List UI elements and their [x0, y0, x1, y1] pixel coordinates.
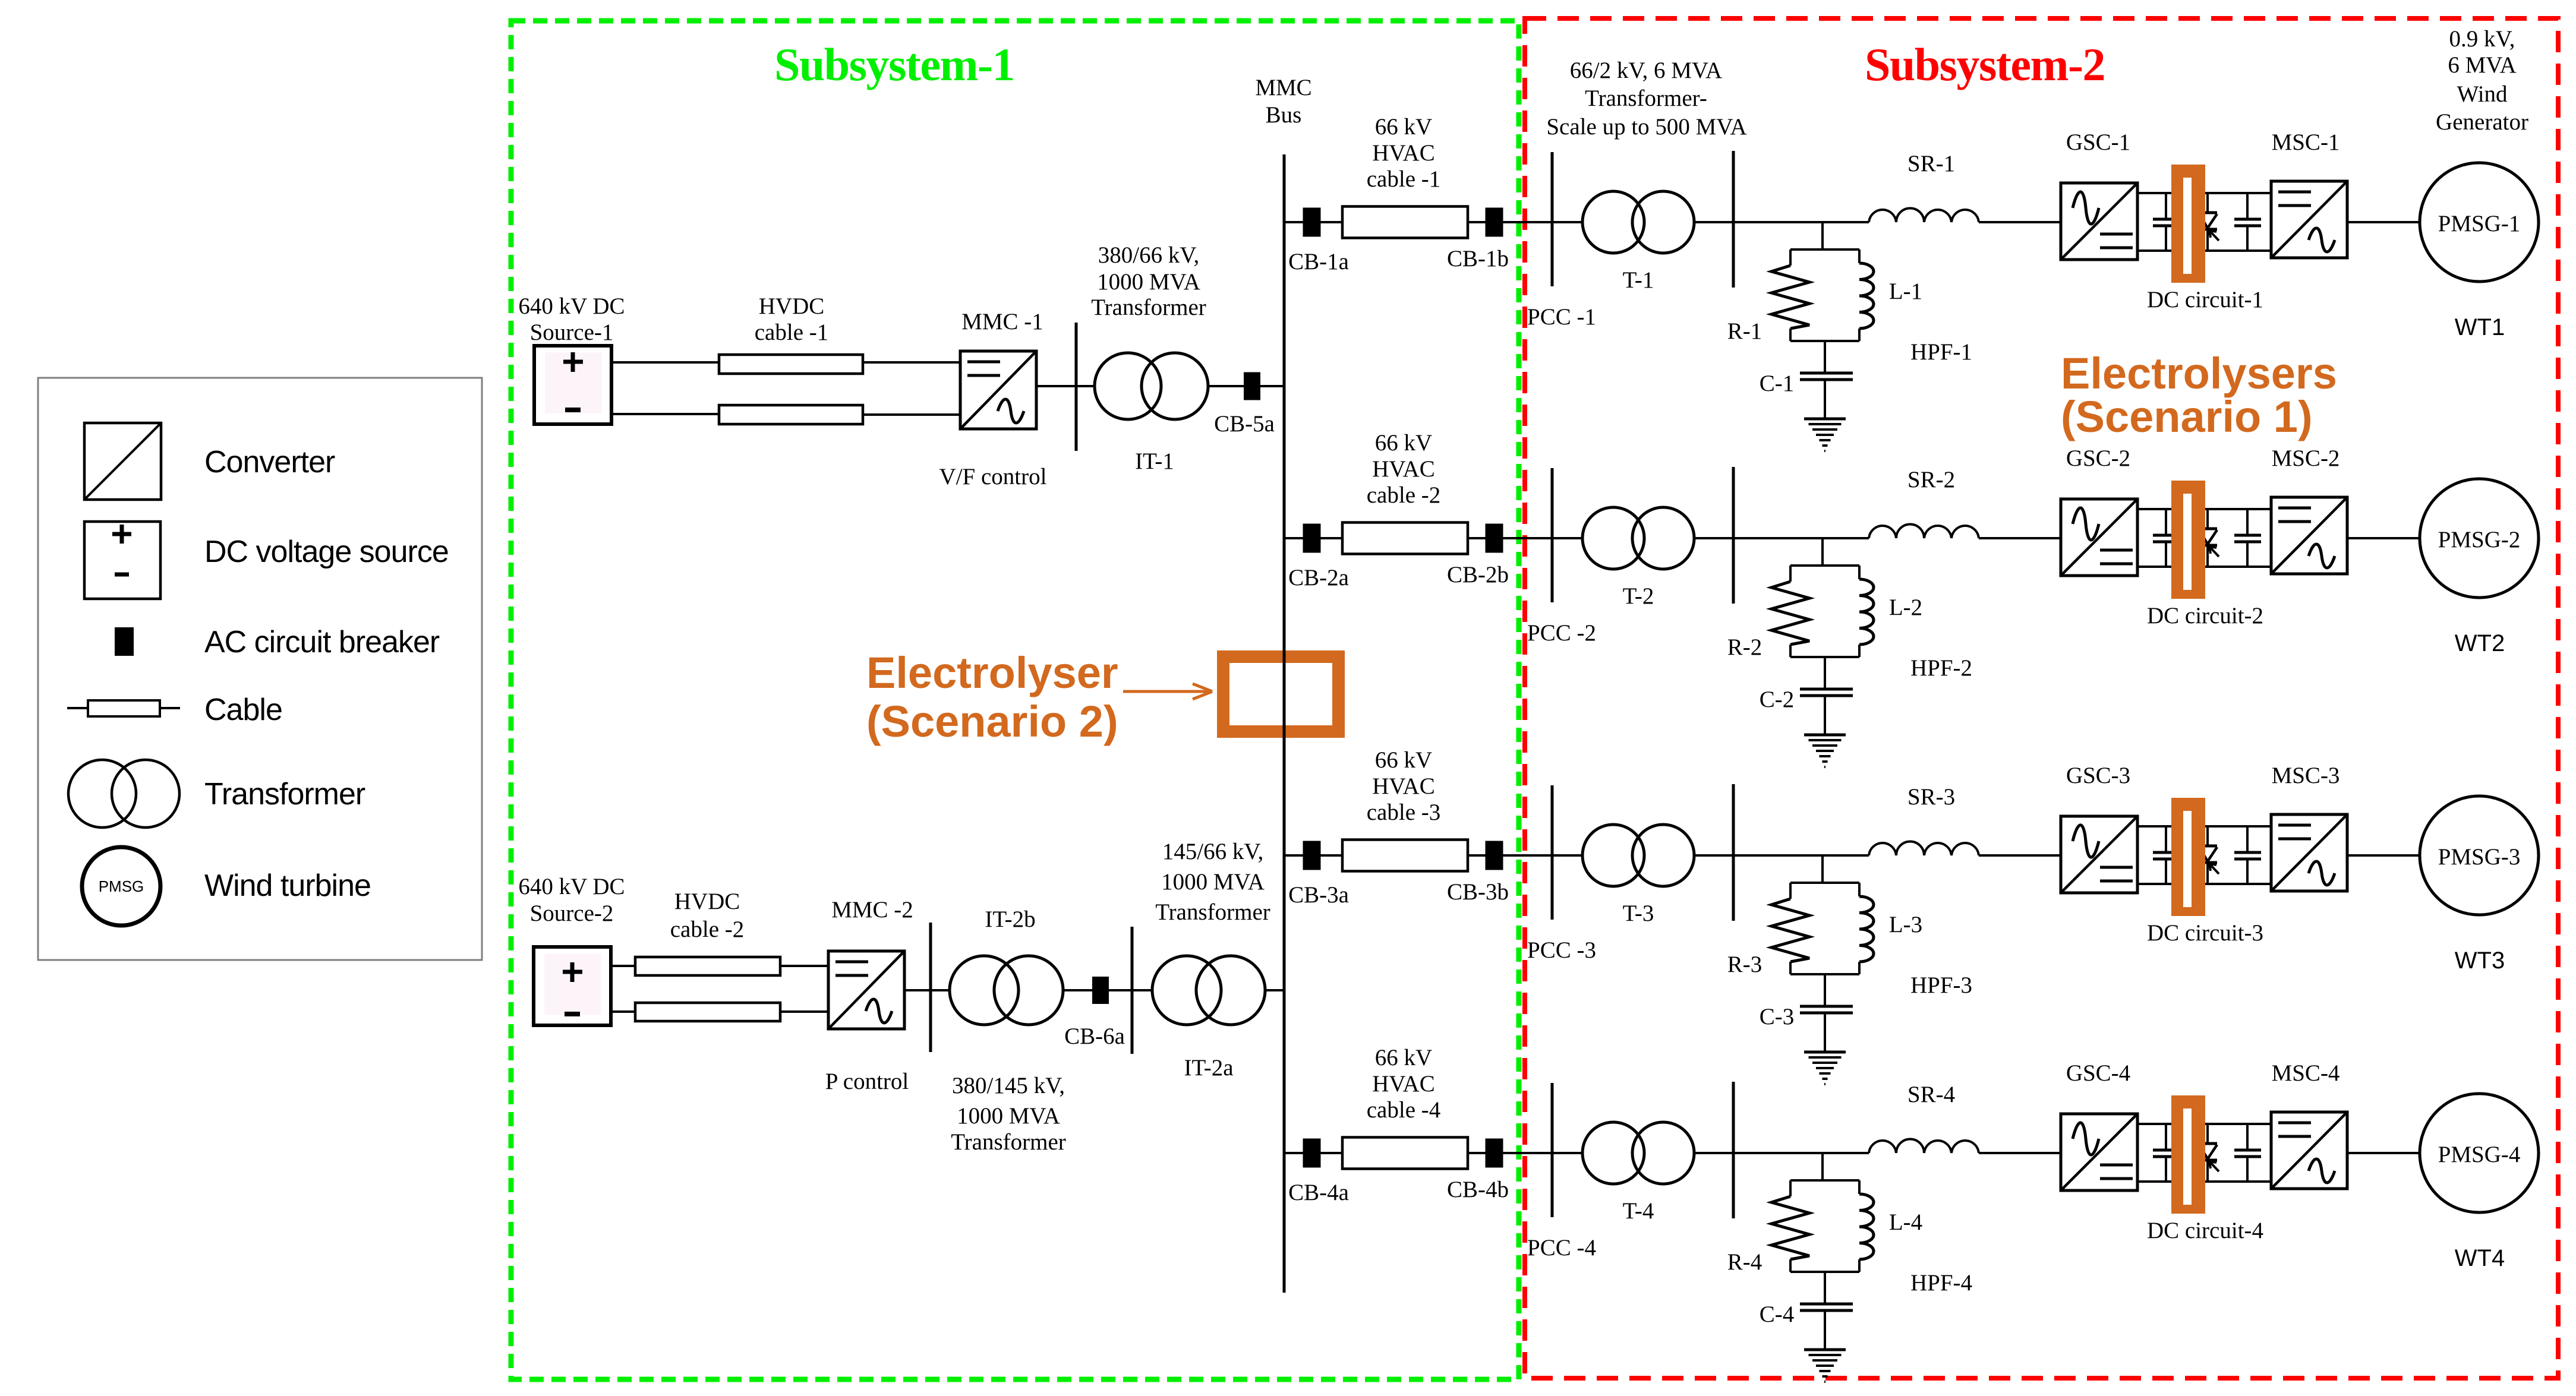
svg-text:GSC-4: GSC-4 [2066, 1060, 2130, 1086]
label MMC -2 [831, 897, 913, 923]
node PCC-1 bus bar [1551, 152, 1554, 286]
wire cable to MMC-1 positive [863, 361, 960, 364]
thyristor row 2 [2199, 509, 2219, 567]
MMC Bus label [1255, 75, 1311, 128]
wire MSC-1 to PMSG-1 [2347, 221, 2420, 223]
resistor R-2 [1771, 582, 1809, 645]
electrolyser EL1 (Scenario 1) in DC circuit-1 [2171, 165, 2205, 283]
svg-text:CB-2a: CB-2a [1288, 565, 1349, 590]
wire CB-2a to cable-2 [1320, 537, 1342, 539]
svg-text:66 kV: 66 kV [1375, 430, 1432, 456]
svg-text:HPF-4: HPF-4 [1910, 1270, 1972, 1296]
wire CB-4b to PCC-4 [1503, 1152, 1582, 1154]
label 380/66 kV 1000 MVA Transformer [1091, 242, 1206, 320]
wire junction down to HPF-4 [1821, 1153, 1824, 1182]
svg-text:145/66 kV,: 145/66 kV, [1162, 839, 1263, 864]
high pass filter HPF-4 parallel block frame [1790, 1180, 1859, 1272]
label DC circuit-3 [2147, 920, 2263, 946]
svg-text:640 kV DC: 640 kV DC [518, 874, 625, 899]
label 380/145 kV 1000 MVA Transformer [951, 1073, 1066, 1155]
svg-text:380/66 kV,: 380/66 kV, [1098, 242, 1199, 268]
svg-text:HVDC: HVDC [759, 293, 825, 319]
svg-text:66 kV: 66 kV [1375, 1045, 1432, 1070]
wire DC link top rail row 2 [2137, 508, 2271, 510]
svg-text:PCC -1: PCC -1 [1527, 304, 1596, 330]
svg-text:R-3: R-3 [1727, 952, 1762, 977]
inductor L-1 [1859, 263, 1874, 329]
node PCC-3 bus bar [1551, 785, 1554, 920]
svg-text:640 kV DC: 640 kV DC [518, 293, 625, 319]
converter MSC-2 machine side [2271, 497, 2347, 574]
svg-text:SR-1: SR-1 [1907, 151, 1955, 176]
svg-text:66/2 kV, 6 MVA: 66/2 kV, 6 MVA [1570, 58, 1722, 83]
circuit breaker CB-1b [1486, 208, 1503, 237]
svg-text:SR-3: SR-3 [1907, 784, 1955, 810]
label 66 kV HVAC cable -1 [1367, 114, 1441, 192]
svg-text:R-4: R-4 [1727, 1249, 1762, 1275]
svg-text:Transformer: Transformer [1155, 899, 1270, 925]
svg-text:V/F control: V/F control [939, 464, 1047, 489]
label Electrolysers (Scenario 1) [2061, 349, 2337, 441]
label L-3 [1889, 912, 1922, 937]
wire T-3 to SR-3 [1694, 854, 1869, 857]
wire CB-2b to PCC-2 [1503, 537, 1582, 539]
svg-text:(Scenario 1): (Scenario 1) [2061, 392, 2313, 441]
svg-text:cable -4: cable -4 [1367, 1097, 1441, 1123]
node bus tick right of T-4 [1732, 1082, 1735, 1218]
wire junction down to HPF-1 [1821, 222, 1824, 251]
svg-text:Transformer: Transformer [951, 1129, 1066, 1155]
label L-4 [1889, 1209, 1922, 1235]
circuit breaker CB-3a [1303, 841, 1321, 870]
wire DC link bottom rail row 1 [2137, 249, 2271, 252]
wire DC link bottom rail row 4 [2137, 1180, 2271, 1183]
svg-text:MSC-4: MSC-4 [2272, 1060, 2340, 1086]
wire DC link top rail row 1 [2137, 192, 2271, 194]
converter GSC-2 grid side [2061, 499, 2137, 576]
wire C-2 to ground [1824, 697, 1826, 735]
svg-text:CB-3a: CB-3a [1288, 882, 1349, 908]
svg-text:C-4: C-4 [1760, 1302, 1795, 1327]
wire bus to CB-4a [1284, 1152, 1303, 1154]
label C-4 [1760, 1302, 1795, 1327]
arrow to electrolyser [1123, 684, 1212, 699]
DC voltage source V1 (640 kV DC Source-1) [534, 346, 611, 424]
label PCC -1 [1527, 304, 1596, 330]
electrolyser EL5 (Scenario 2) on MMC bus [1217, 650, 1345, 738]
wire SR-2 to GSC-2 [1979, 537, 2061, 539]
label CB-5a [1214, 411, 1275, 437]
thyristor row 1 [2199, 193, 2219, 251]
label HVDC cable -2 [670, 889, 745, 942]
svg-text:CB-2b: CB-2b [1447, 562, 1509, 588]
ground [1804, 1052, 1846, 1084]
label MSC-3 [2272, 763, 2340, 788]
wire C-3 to ground [1824, 1014, 1826, 1052]
svg-text:C-2: C-2 [1760, 687, 1795, 712]
svg-text:1000 MVA: 1000 MVA [1161, 869, 1265, 895]
svg-text:P control: P control [825, 1069, 909, 1094]
MMC bus vertical line [1283, 154, 1286, 1293]
circuit breaker CB-4b [1486, 1139, 1503, 1168]
label IT-2b [985, 907, 1035, 932]
circuit breaker CB-2b [1486, 524, 1503, 553]
svg-text:WT4: WT4 [2455, 1245, 2505, 1271]
wire cable-3 to CB-3b [1468, 854, 1486, 857]
circuit breaker CB-1a [1303, 208, 1321, 237]
node PCC-4 bus bar [1551, 1083, 1554, 1217]
wire source-2 positive to cable [611, 965, 635, 967]
capacitor DC link left row 3 [2153, 826, 2180, 884]
label SR-3 [1907, 784, 1955, 810]
label GSC-3 [2066, 763, 2130, 788]
wire IT-1 to CB-5a [1208, 385, 1244, 387]
svg-text:HPF-1: HPF-1 [1910, 339, 1972, 365]
svg-text:66 kV: 66 kV [1375, 114, 1432, 140]
wire SR-3 to GSC-3 [1979, 854, 2061, 857]
svg-text:L-1: L-1 [1889, 279, 1922, 304]
circuit breaker CB-5a [1244, 372, 1260, 400]
cable 66 kV HVAC cable-2 [1342, 523, 1468, 554]
generator PMSG-2 wind turbine [2420, 479, 2539, 598]
cable 66 kV HVAC cable-4 [1342, 1138, 1468, 1169]
wire CB-6a to IT-2a [1109, 989, 1152, 991]
svg-text:Wind: Wind [2457, 81, 2508, 107]
label HPF-3 [1910, 972, 1972, 998]
capacitor DC link left row 2 [2153, 509, 2180, 567]
svg-text:HVAC: HVAC [1372, 773, 1434, 799]
svg-text:HPF-3: HPF-3 [1910, 972, 1972, 998]
label HPF-2 [1910, 655, 1972, 681]
label IT-1 [1135, 449, 1174, 474]
label C-1 [1760, 371, 1795, 396]
legend transformer symbol [68, 760, 365, 828]
label MSC-4 [2272, 1060, 2340, 1086]
label R-4 [1727, 1249, 1762, 1275]
wire bus to CB-3a [1284, 854, 1303, 857]
svg-text:MMC: MMC [1255, 75, 1311, 100]
svg-text:CB-4a: CB-4a [1288, 1180, 1349, 1205]
electrolyser EL3 (Scenario 1) in DC circuit-3 [2171, 798, 2205, 916]
label CB-2b [1447, 562, 1509, 588]
label PCC -4 [1527, 1235, 1596, 1261]
wire T-2 to SR-2 [1694, 537, 1869, 539]
label CB-3a [1288, 882, 1349, 908]
svg-text:C-3: C-3 [1760, 1004, 1795, 1029]
svg-text:WT3: WT3 [2455, 947, 2505, 974]
label GSC-2 [2066, 446, 2130, 471]
label 640 kV DC Source-1 [518, 293, 625, 345]
wire cable to MMC-2 positive [780, 965, 828, 967]
svg-text:PMSG-2: PMSG-2 [2438, 527, 2521, 552]
transformer IT-1 [1095, 353, 1208, 419]
wire HPF-3 block to C-3 [1824, 974, 1826, 1005]
capacitor DC link right row 3 [2234, 826, 2261, 884]
inductor L-3 [1859, 896, 1874, 962]
svg-text:MSC-3: MSC-3 [2272, 763, 2340, 788]
svg-text:C-1: C-1 [1760, 371, 1795, 396]
capacitor C-4 [1800, 1304, 1853, 1310]
wire IT-2a to MMC bus [1265, 989, 1284, 991]
svg-text:MMC -1: MMC -1 [961, 309, 1043, 334]
legend AC circuit breaker symbol [115, 625, 440, 659]
electrolyser EL4 (Scenario 1) in DC circuit-4 [2171, 1095, 2205, 1214]
svg-text:HVAC: HVAC [1372, 1071, 1434, 1097]
svg-text:PMSG-4: PMSG-4 [2438, 1142, 2521, 1167]
svg-text:CB-5a: CB-5a [1214, 411, 1275, 437]
svg-text:Source-2: Source-2 [530, 901, 614, 926]
node bus tick right of T-2 [1732, 467, 1735, 604]
generator PMSG-4 wind turbine [2420, 1094, 2539, 1212]
label HVDC cable -1 [755, 293, 829, 345]
wire MSC-4 to PMSG-4 [2347, 1152, 2420, 1154]
label WT1 [2455, 314, 2505, 340]
label CB-1b [1447, 246, 1509, 271]
high pass filter HPF-3 parallel block frame [1790, 883, 1859, 974]
node bus tick left of IT-2b [929, 923, 932, 1052]
svg-text:66 kV: 66 kV [1375, 747, 1432, 773]
ground [1804, 735, 1846, 767]
circuit breaker CB-4a [1303, 1139, 1321, 1168]
wire CB-4a to cable-4 [1320, 1152, 1342, 1154]
transformer T-3 [1582, 825, 1694, 886]
transformer IT-2b [950, 956, 1063, 1025]
wire cable-2 to CB-2b [1468, 537, 1486, 539]
label SR-2 [1907, 467, 1955, 492]
svg-text:Electrolyser: Electrolyser [866, 648, 1118, 697]
svg-text:Wind turbine: Wind turbine [204, 868, 371, 903]
svg-text:DC circuit-3: DC circuit-3 [2147, 920, 2263, 946]
wire CB-3b to PCC-3 [1503, 854, 1582, 857]
capacitor DC link left row 4 [2153, 1124, 2180, 1182]
label C-2 [1760, 687, 1795, 712]
svg-text:T-4: T-4 [1623, 1198, 1654, 1224]
inductor SR-3 series reactor [1869, 841, 1979, 855]
wire HPF-1 block to C-1 [1824, 341, 1826, 372]
resistor R-3 [1771, 899, 1809, 962]
svg-text:Cable: Cable [204, 693, 282, 727]
legend cable symbol [67, 693, 282, 727]
wire MSC-2 to PMSG-2 [2347, 537, 2420, 539]
legend converter symbol [84, 423, 335, 500]
node bus tick right of CB-6a [1131, 927, 1134, 1054]
label Electrolyser (Scenario 2) [866, 648, 1118, 746]
wire junction down to HPF-3 [1821, 855, 1824, 884]
label CB-2a [1288, 565, 1349, 590]
svg-text:L-2: L-2 [1889, 595, 1922, 620]
label 66 kV HVAC cable -4 [1367, 1045, 1441, 1123]
ground [1804, 1350, 1846, 1382]
wire T-4 to SR-4 [1694, 1152, 1869, 1154]
wire junction down to HPF-2 [1821, 538, 1824, 567]
legend DC voltage source symbol [84, 522, 449, 599]
wire MMC-2 to IT-2b [904, 989, 950, 991]
wire bus to CB-1a [1284, 221, 1303, 223]
wire cable-4 to CB-4b [1468, 1152, 1486, 1154]
svg-text:T-1: T-1 [1623, 267, 1654, 293]
label MSC-2 [2272, 446, 2340, 471]
label 66/2 kV 6 MVA Transformer Scale up to 500 MVA [1546, 58, 1746, 140]
wire CB-1a to cable-1 [1320, 221, 1342, 223]
label GSC-4 [2066, 1060, 2130, 1086]
svg-text:cable -3: cable -3 [1367, 800, 1441, 825]
thyristor row 3 [2199, 826, 2219, 884]
label T-3 [1623, 901, 1654, 926]
label SR-4 [1907, 1082, 1955, 1107]
circuit breaker CB-6a [1092, 977, 1109, 1004]
label DC circuit-2 [2147, 603, 2263, 628]
label CB-4a [1288, 1180, 1349, 1205]
svg-text:CB-6a: CB-6a [1064, 1024, 1125, 1049]
wire DC link top rail row 4 [2137, 1123, 2271, 1125]
label 66 kV HVAC cable -2 [1367, 430, 1441, 508]
wire MSC-3 to PMSG-3 [2347, 854, 2420, 857]
label MSC-1 [2272, 130, 2340, 155]
wire DC link bottom rail row 3 [2137, 883, 2271, 885]
cable 66 kV HVAC cable-3 [1342, 840, 1468, 871]
svg-text:CB-4b: CB-4b [1447, 1177, 1509, 1202]
label 66 kV HVAC cable -3 [1367, 747, 1441, 825]
label DC circuit-1 [2147, 287, 2263, 312]
svg-text:T-2: T-2 [1623, 583, 1654, 609]
svg-text:PCC -3: PCC -3 [1527, 937, 1596, 963]
svg-text:DC voltage source: DC voltage source [204, 535, 449, 569]
label L-2 [1889, 595, 1922, 620]
wire DC link bottom rail row 2 [2137, 566, 2271, 568]
label MMC -1 [961, 309, 1043, 334]
label T-1 [1623, 267, 1654, 293]
converter MSC-1 machine side [2271, 181, 2347, 258]
svg-text:6 MVA: 6 MVA [2448, 52, 2516, 78]
svg-text:PMSG-1: PMSG-1 [2438, 211, 2521, 236]
svg-text:Source-1: Source-1 [530, 320, 614, 345]
svg-text:DC circuit-2: DC circuit-2 [2147, 603, 2263, 628]
resistor R-1 [1771, 266, 1809, 329]
svg-text:SR-2: SR-2 [1907, 467, 1955, 492]
legend wind turbine symbol [82, 847, 371, 926]
wire DC link top rail row 3 [2137, 825, 2271, 828]
label T-2 [1623, 583, 1654, 609]
label WT3 [2455, 947, 2505, 974]
svg-text:T-3: T-3 [1623, 901, 1654, 926]
wire CB-5a to MMC bus [1260, 385, 1284, 387]
label IT-2a [1184, 1055, 1233, 1081]
svg-text:HVAC: HVAC [1372, 140, 1434, 166]
svg-text:L-3: L-3 [1889, 912, 1922, 937]
label WT4 [2455, 1245, 2505, 1271]
svg-text:MSC-1: MSC-1 [2272, 130, 2340, 155]
node bus tick right of T-3 [1732, 784, 1735, 921]
converter MMC-1 [960, 351, 1036, 429]
node bus tick left of IT-1 [1075, 323, 1078, 451]
converter MSC-3 machine side [2271, 814, 2347, 891]
svg-text:GSC-2: GSC-2 [2066, 446, 2130, 471]
label T-4 [1623, 1198, 1654, 1224]
svg-text:Transformer-: Transformer- [1585, 86, 1707, 111]
wire SR-4 to GSC-4 [1979, 1152, 2061, 1154]
svg-text:cable -1: cable -1 [1367, 166, 1441, 192]
svg-text:WT2: WT2 [2455, 630, 2505, 656]
svg-text:IT-2b: IT-2b [985, 907, 1035, 932]
converter GSC-1 grid side [2061, 183, 2137, 260]
high pass filter HPF-2 parallel block frame [1790, 566, 1859, 657]
wire source-2 negative to cable [611, 1010, 635, 1013]
svg-text:PCC -4: PCC -4 [1527, 1235, 1596, 1261]
capacitor DC link right row 4 [2234, 1124, 2261, 1182]
svg-text:CB-1a: CB-1a [1288, 249, 1349, 274]
capacitor DC link left row 1 [2153, 193, 2180, 251]
inductor SR-2 series reactor [1869, 525, 1979, 539]
svg-text:Transformer: Transformer [204, 777, 365, 811]
svg-text:PMSG: PMSG [99, 877, 144, 895]
electrolyser EL2 (Scenario 1) in DC circuit-2 [2171, 481, 2205, 599]
capacitor C-2 [1800, 689, 1853, 696]
converter GSC-4 grid side [2061, 1114, 2137, 1190]
transformer IT-2a [1152, 956, 1265, 1025]
svg-text:SR-4: SR-4 [1907, 1082, 1955, 1107]
svg-text:MSC-2: MSC-2 [2272, 446, 2340, 471]
svg-text:Subsystem-2: Subsystem-2 [1865, 39, 2105, 90]
circuit breaker CB-2a [1303, 524, 1321, 553]
capacitor C-1 [1800, 373, 1853, 380]
label PCC -2 [1527, 620, 1596, 646]
Subsystem-2 red dashed boundary box [1525, 18, 2558, 1378]
inductor L-4 [1859, 1194, 1874, 1259]
svg-text:cable -1: cable -1 [755, 320, 829, 345]
svg-text:CB-1b: CB-1b [1447, 246, 1509, 271]
svg-text:cable -2: cable -2 [670, 917, 745, 942]
svg-text:IT-2a: IT-2a [1184, 1055, 1233, 1081]
svg-text:GSC-3: GSC-3 [2066, 763, 2130, 788]
Subsystem-1 title [774, 39, 1014, 90]
resistor R-4 [1771, 1196, 1809, 1259]
cable 66 kV HVAC cable-1 [1342, 207, 1468, 238]
label P control [825, 1069, 909, 1094]
svg-text:AC circuit breaker: AC circuit breaker [204, 625, 440, 659]
wire source-1 positive to cable [611, 361, 719, 364]
label C-3 [1760, 1004, 1795, 1029]
circuit breaker CB-3b [1486, 841, 1503, 870]
label L-1 [1889, 279, 1922, 304]
capacitor DC link right row 2 [2234, 509, 2261, 567]
wire C-1 to ground [1824, 381, 1826, 419]
converter GSC-3 grid side [2061, 816, 2137, 893]
svg-text:cable -2: cable -2 [1367, 482, 1441, 508]
svg-text:IT-1: IT-1 [1135, 449, 1174, 474]
svg-text:L-4: L-4 [1889, 1209, 1922, 1235]
svg-text:HPF-2: HPF-2 [1910, 655, 1972, 681]
wire IT-2b to CB-6a [1063, 989, 1092, 991]
wire CB-3a to cable-3 [1320, 854, 1342, 857]
label CB-4b [1447, 1177, 1509, 1202]
svg-text:1000 MVA: 1000 MVA [957, 1103, 1060, 1129]
label 640 kV DC Source-2 [518, 874, 625, 926]
wire bus to CB-2a [1284, 537, 1303, 539]
wire cable to MMC-2 negative [780, 1010, 828, 1013]
inductor L-2 [1859, 579, 1874, 645]
capacitor DC link right row 1 [2234, 193, 2261, 251]
label PCC -3 [1527, 937, 1596, 963]
converter MSC-4 machine side [2271, 1112, 2347, 1189]
label R-2 [1727, 634, 1762, 660]
transformer T-4 [1582, 1122, 1694, 1184]
svg-text:MMC -2: MMC -2 [831, 897, 913, 923]
Subsystem-1 green dashed boundary box [511, 21, 1519, 1379]
svg-text:0.9 kV,: 0.9 kV, [2449, 26, 2515, 52]
label WT2 [2455, 630, 2505, 656]
label CB-1a [1288, 249, 1349, 274]
label R-1 [1727, 318, 1762, 344]
